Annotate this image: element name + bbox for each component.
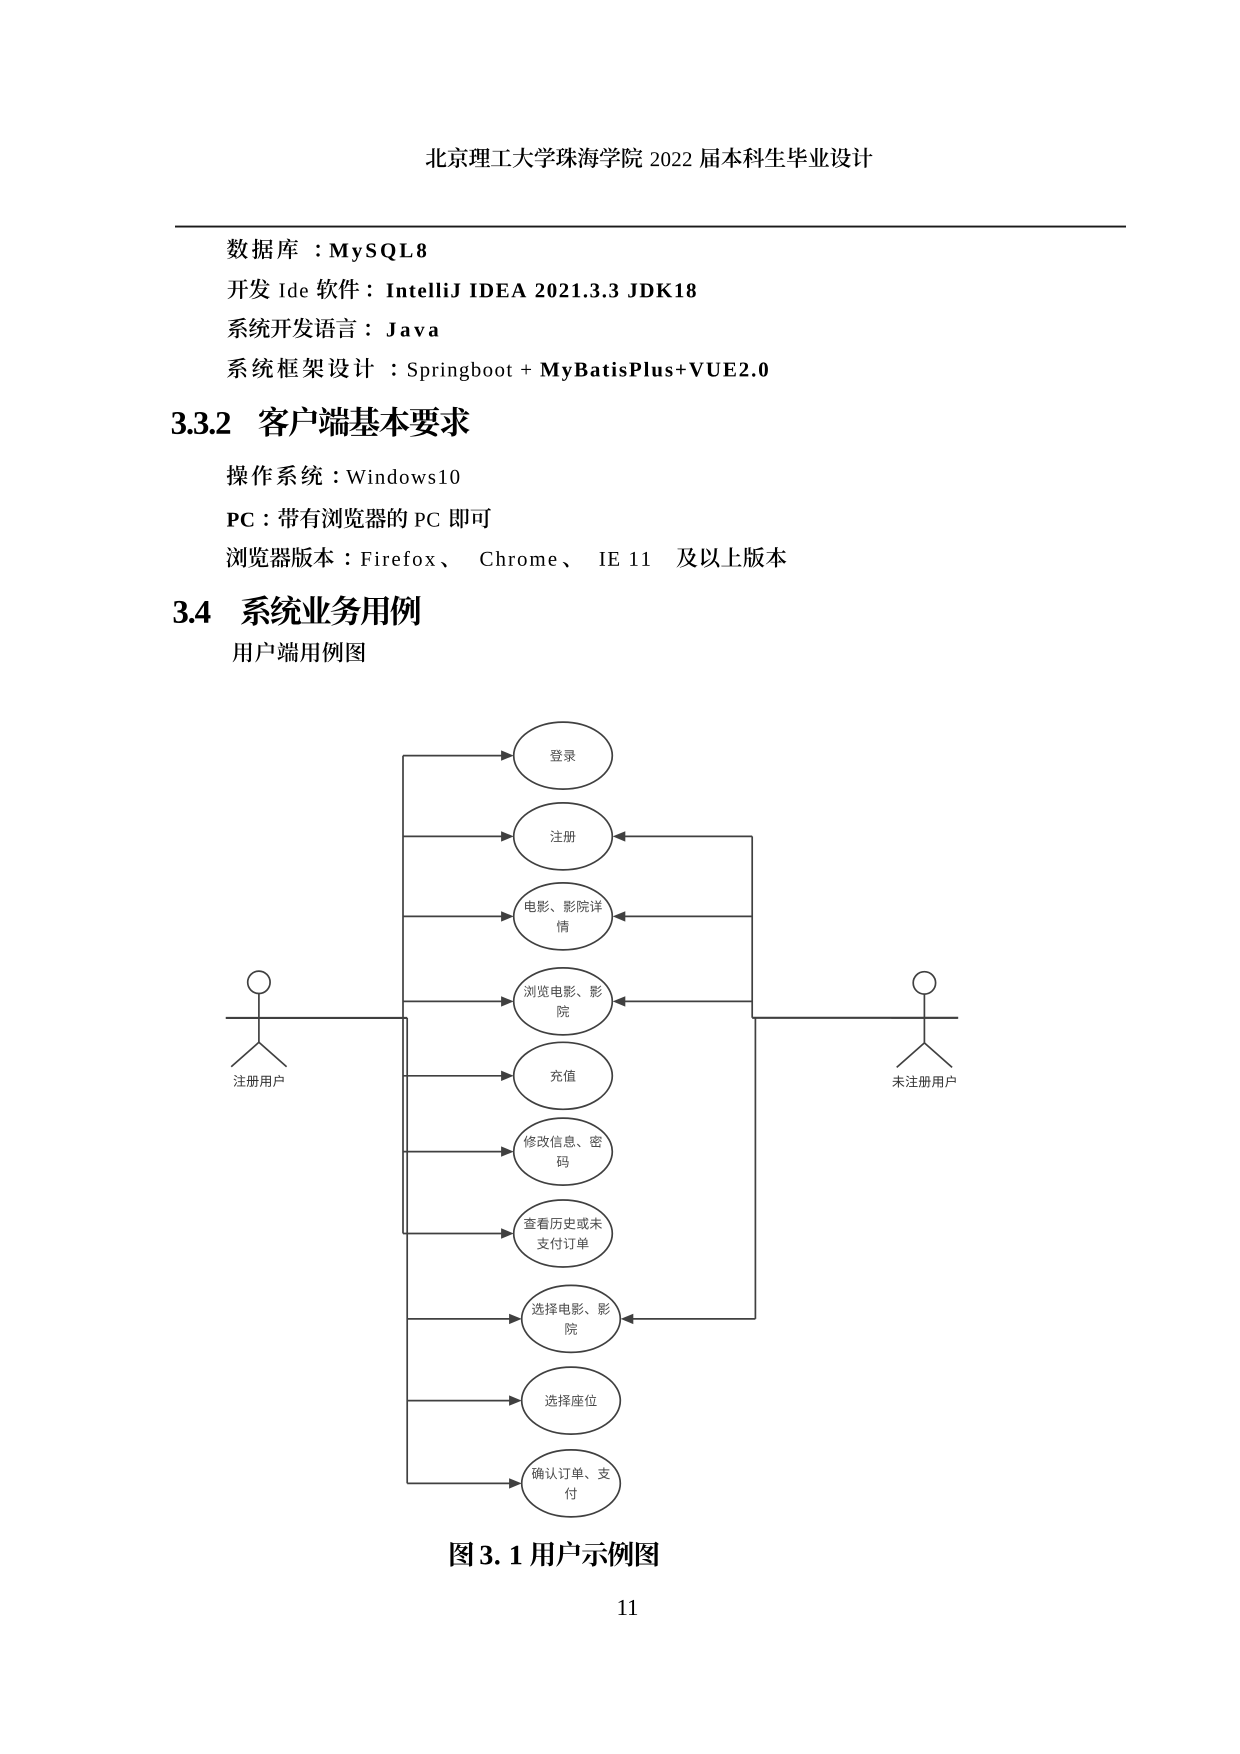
wire right bus vertical <box>751 836 753 1017</box>
body line 3 <box>228 318 439 339</box>
arrow right row 3 <box>613 911 753 921</box>
use-case ellipse 查看历史或未支付订单 <box>514 1200 613 1267</box>
wire association unregistered user <box>752 1017 958 1019</box>
use-case ellipse 注册 <box>514 803 613 870</box>
arrow left row 6 <box>403 1146 514 1156</box>
body line 7 <box>226 547 786 568</box>
horizontal rule <box>175 226 1126 228</box>
use-case ellipse 修改信息、密码 <box>514 1118 613 1185</box>
arrow right row 4 <box>613 996 753 1006</box>
heading 3.4 <box>174 595 421 625</box>
arrow left row 3 <box>403 911 514 921</box>
body line 8 <box>233 642 365 663</box>
body line 2 <box>228 279 696 300</box>
arrow left row 8 <box>407 1314 522 1324</box>
use-case ellipse 选择电影、影院 <box>522 1285 621 1352</box>
body line 6 <box>227 508 491 529</box>
body line 1 <box>227 239 426 262</box>
page number <box>619 1600 638 1615</box>
arrow left row 9 <box>407 1395 522 1405</box>
body line 4 <box>227 358 768 381</box>
arrow left row 2 <box>403 831 514 841</box>
use-case ellipse 选择座位 <box>522 1367 621 1434</box>
arrow left row 5 <box>403 1071 514 1081</box>
arrow left row 4 <box>403 996 514 1006</box>
arrow left row 10 <box>407 1478 522 1488</box>
arrow right row 8 <box>621 1314 756 1324</box>
header text <box>426 147 873 168</box>
wire association registered user <box>226 1017 407 1019</box>
actor 注册用户 <box>226 971 292 1087</box>
wire right secondary vertical <box>754 1018 756 1319</box>
wire left secondary vertical <box>406 1018 408 1484</box>
body line 5 <box>227 465 460 486</box>
arrow left row 7 <box>403 1228 514 1238</box>
use-case ellipse 充值 <box>514 1042 613 1109</box>
heading 3.3.2 <box>172 406 470 436</box>
wire left bus vertical <box>402 756 404 1234</box>
arrow right row 2 <box>613 831 753 841</box>
actor 未注册用户 <box>891 972 957 1088</box>
arrow left row 1 <box>403 750 514 760</box>
use-case ellipse 登录 <box>514 722 613 789</box>
use-case ellipse 确认订单、支付 <box>522 1450 621 1517</box>
use-case ellipse 浏览电影、影院 <box>514 968 613 1035</box>
figure caption <box>450 1541 658 1567</box>
use-case ellipse 电影、影院详情 <box>514 883 613 950</box>
